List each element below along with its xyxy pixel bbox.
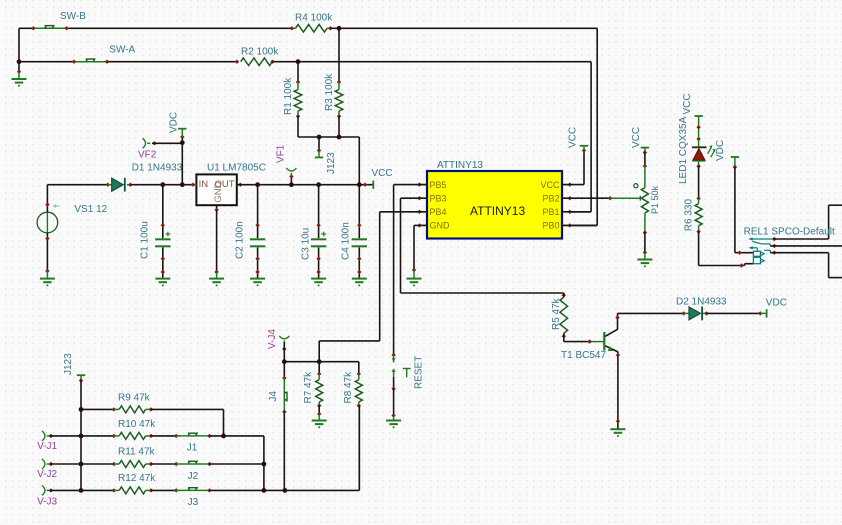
svg-text:PB3: PB3 (430, 193, 447, 203)
svg-text:J123: J123 (63, 353, 74, 375)
svg-text:R4 100k: R4 100k (295, 12, 333, 23)
svg-text:R2 100k: R2 100k (241, 47, 279, 58)
svg-text:R11 47k: R11 47k (118, 446, 156, 457)
svg-text:U1 LM7805C: U1 LM7805C (207, 162, 266, 173)
svg-text:VCC: VCC (567, 127, 578, 148)
svg-text:LED1 CQX35A: LED1 CQX35A (678, 116, 689, 184)
svg-text:R12 47k: R12 47k (118, 473, 156, 484)
svg-text:R5 47k: R5 47k (551, 297, 562, 330)
svg-text:VS1 12: VS1 12 (74, 204, 107, 215)
svg-text:V-J3: V-J3 (37, 497, 57, 508)
svg-text:PB2: PB2 (542, 193, 559, 203)
svg-text:P1 50k: P1 50k (650, 185, 660, 214)
svg-text:C3 10u: C3 10u (301, 228, 312, 260)
svg-text:R10 47k: R10 47k (118, 419, 156, 430)
svg-text:R7 47k: R7 47k (303, 371, 314, 404)
svg-text:GND: GND (213, 181, 224, 202)
svg-text:VDC: VDC (715, 140, 726, 161)
svg-text:D1 1N4933: D1 1N4933 (132, 162, 183, 173)
svg-text:VF1: VF1 (275, 144, 286, 163)
svg-text:PB4: PB4 (430, 207, 447, 217)
svg-text:ATTINY13: ATTINY13 (470, 204, 525, 218)
svg-text:VDC: VDC (169, 112, 180, 133)
svg-text:V-J4: V-J4 (267, 329, 278, 349)
svg-text:R1 100k: R1 100k (283, 77, 294, 115)
svg-text:VCC: VCC (372, 168, 393, 179)
svg-text:R3 100k: R3 100k (324, 73, 335, 111)
svg-text:GND: GND (430, 221, 451, 231)
svg-text:C1 100u: C1 100u (140, 221, 151, 259)
svg-text:VF2: VF2 (138, 150, 157, 161)
svg-text:D2 1N4933: D2 1N4933 (676, 296, 727, 307)
svg-text:VCC: VCC (540, 180, 560, 190)
svg-text:T1 BC547: T1 BC547 (561, 350, 606, 361)
svg-text:R9 47k: R9 47k (118, 392, 151, 403)
svg-text:V-J1: V-J1 (37, 441, 57, 452)
svg-text:J123: J123 (326, 152, 337, 174)
svg-text:SW-A: SW-A (109, 44, 135, 55)
svg-text:REL1 SPCO-Default: REL1 SPCO-Default (744, 227, 835, 238)
svg-text:PB5: PB5 (430, 180, 447, 190)
svg-text:J2: J2 (188, 471, 199, 482)
svg-text:C2 100n: C2 100n (235, 221, 246, 259)
svg-text:J3: J3 (188, 497, 199, 508)
svg-text:SW-B: SW-B (60, 11, 86, 22)
svg-text:R8 47k: R8 47k (343, 371, 354, 404)
svg-text:R6 330: R6 330 (684, 199, 695, 232)
svg-text:VCC: VCC (682, 93, 693, 114)
svg-text:J1: J1 (187, 443, 198, 454)
svg-text:J4: J4 (268, 391, 279, 402)
svg-text:PB1: PB1 (542, 207, 559, 217)
svg-text:C4 100n: C4 100n (341, 222, 352, 260)
svg-text:RESET: RESET (413, 356, 424, 389)
svg-text:ATTINY13: ATTINY13 (437, 160, 483, 171)
svg-text:VCC: VCC (631, 127, 642, 148)
svg-text:V-J2: V-J2 (37, 469, 57, 480)
svg-text:PB0: PB0 (542, 221, 559, 231)
svg-text:IN: IN (199, 179, 209, 190)
svg-text:VDC: VDC (766, 298, 787, 309)
